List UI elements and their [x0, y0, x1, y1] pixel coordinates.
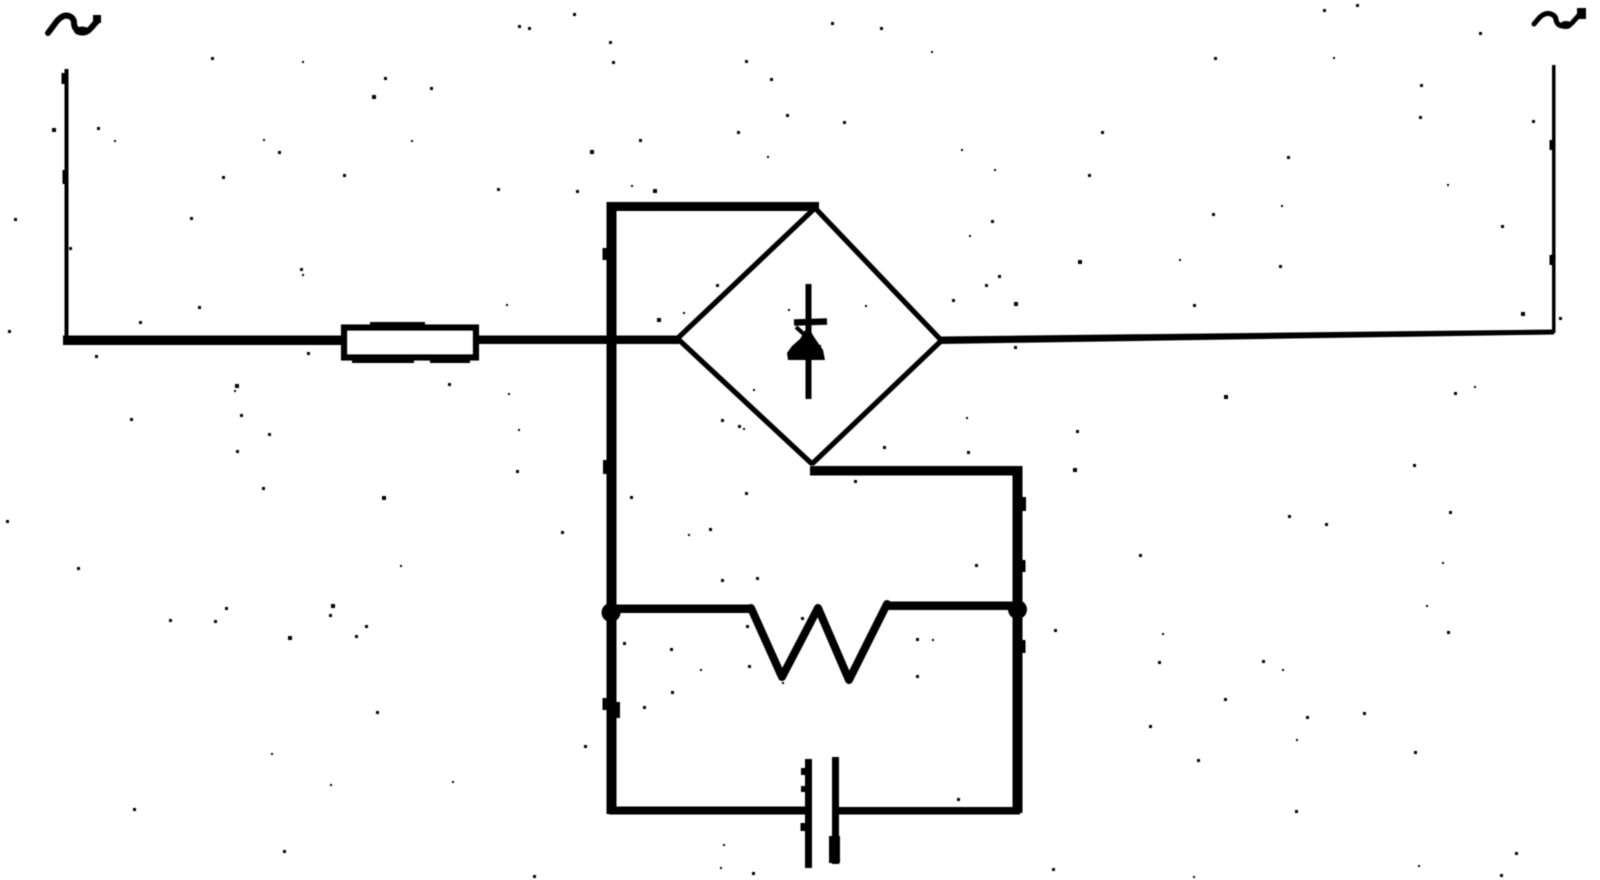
wire: right AC drop (vertical) [1552, 65, 1556, 333]
node: left junction dot [602, 603, 621, 622]
wire: bottom horizontal (right of capacitor) [839, 807, 1020, 815]
wire: inner right vertical leg [1013, 466, 1023, 813]
diode (inside bridge) [787, 284, 827, 399]
wire: bridge right vertex to right AC terminal [941, 330, 1554, 345]
resistor left lead [611, 605, 752, 614]
resistor right lead [885, 602, 1016, 611]
wire: left horizontal to fuse [63, 336, 346, 346]
wire: bridge bottom vertex to right leg (horizontal) [810, 466, 1019, 476]
wire: top branch to bridge top vertex [607, 202, 819, 211]
wire: main vertical bus [607, 202, 617, 814]
wire: fuse to bridge left vertex [476, 336, 679, 345]
capacitor plate (left) [805, 759, 812, 868]
AC terminal squiggle (right) [1534, 8, 1586, 29]
wire: left AC drop (vertical) [65, 69, 69, 343]
capacitor plate (right) [829, 757, 840, 864]
fuse (rectangle) [344, 328, 476, 358]
bridge rectifier (diamond) [678, 208, 941, 463]
wire: bottom horizontal (left of capacitor) [609, 807, 808, 815]
node: right junction dot [1008, 600, 1027, 619]
AC terminal squiggle (left) [48, 15, 101, 36]
resistor (zigzag) [751, 604, 887, 680]
